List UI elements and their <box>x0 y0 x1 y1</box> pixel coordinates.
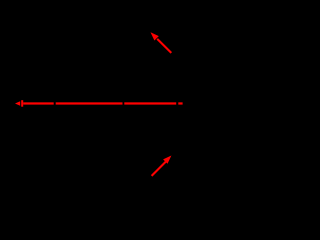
arrowhead tip triangle <box>15 101 20 105</box>
shaft <box>157 39 171 53</box>
shaft <box>152 162 166 176</box>
arrowhead <box>163 156 171 164</box>
lower-right diagonal arrow (points up-right) <box>152 156 172 176</box>
horizontal velocity vector arrow (points left) <box>15 100 183 107</box>
arrowhead <box>151 32 159 40</box>
wire: shaft segment 2 <box>56 102 123 104</box>
arrowhead back bar <box>21 100 23 107</box>
wire: shaft segment 3 <box>124 102 176 104</box>
wire: shaft segment 1 <box>23 102 54 104</box>
upper-right diagonal arrow (points up-left) <box>151 32 172 53</box>
wire: shaft end dash <box>178 102 182 104</box>
